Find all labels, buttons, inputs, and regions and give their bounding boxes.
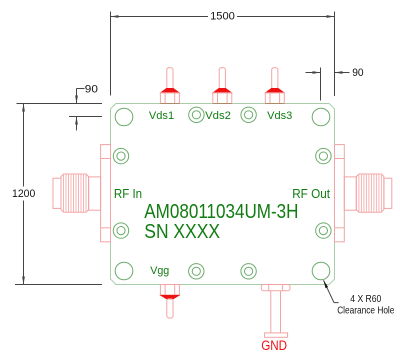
- feedthrough pin Vgg (bottom): [160, 285, 179, 319]
- feedthrough pin Vds1: [160, 68, 179, 104]
- svg-text:90: 90: [352, 67, 363, 79]
- RF Out knurl lines: [359, 174, 382, 212]
- screw hole top-2: [241, 107, 256, 122]
- svg-text:RF Out: RF Out: [292, 186, 330, 201]
- dimension 1200 (left): [15, 104, 102, 285]
- svg-text:90: 90: [85, 83, 98, 95]
- svg-text:Vgg: Vgg: [150, 265, 169, 277]
- svg-text:SN XXXX: SN XXXX: [144, 221, 220, 243]
- dimension 90 (top-right): [306, 68, 350, 101]
- body outline (chassis, chamfered rectangle): [111, 104, 335, 285]
- svg-text:4 X R60: 4 X R60: [350, 293, 381, 305]
- feedthrough pin Vds3: [265, 68, 284, 104]
- RF In connector (SMA, left): [53, 145, 111, 242]
- svg-text:AM08011034UM-3H: AM08011034UM-3H: [144, 201, 298, 223]
- GND post (bottom): [261, 285, 290, 338]
- dimension 90 (top-left): [17, 89, 103, 131]
- leader 4 X R60 Clearance Hole: [324, 280, 339, 302]
- svg-text:RF In: RF In: [114, 186, 142, 201]
- corner clearance hole top-right: [312, 108, 330, 126]
- screw hole right-2: [316, 223, 331, 238]
- dimension 1500 (top): [111, 12, 335, 97]
- screw hole bottom-2: [241, 264, 256, 279]
- svg-text:Vds1: Vds1: [149, 110, 174, 122]
- svg-text:GND: GND: [261, 338, 287, 353]
- screw hole left-1: [113, 148, 128, 163]
- svg-text:Vds3: Vds3: [267, 110, 292, 122]
- svg-text:1200: 1200: [12, 188, 35, 200]
- RF Out connector (SMA, right): [335, 145, 392, 242]
- screw hole top-1: [189, 107, 204, 122]
- corner clearance hole top-left: [115, 108, 133, 126]
- screw hole left-2: [113, 223, 128, 238]
- feedthrough pin Vds2: [213, 68, 232, 104]
- RF In knurl lines: [64, 174, 87, 212]
- screw hole bottom-1: [189, 264, 204, 279]
- svg-text:1500: 1500: [210, 11, 235, 23]
- svg-text:Clearance Hole: Clearance Hole: [337, 304, 394, 316]
- svg-text:Vds2: Vds2: [205, 110, 231, 122]
- screw hole right-1: [316, 148, 331, 163]
- corner clearance hole bottom-right: [312, 262, 330, 280]
- corner clearance hole bottom-left: [115, 262, 133, 280]
